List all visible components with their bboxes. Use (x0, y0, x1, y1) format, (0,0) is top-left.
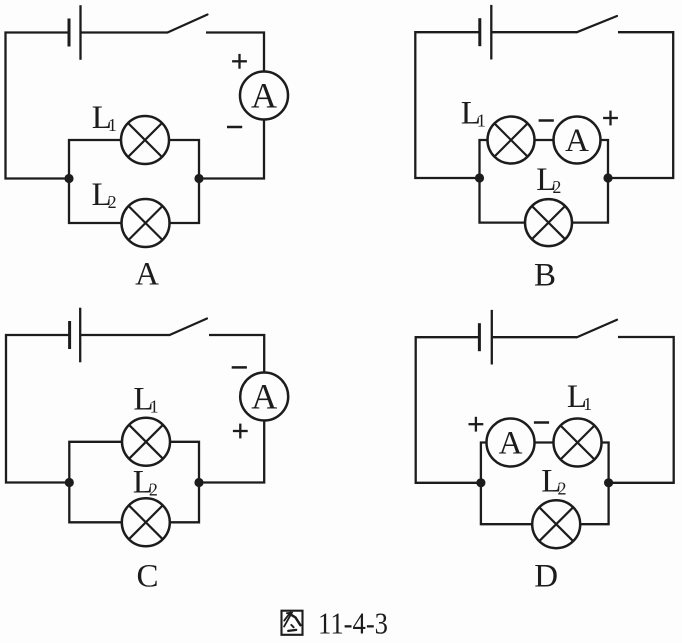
circuit B: wire from battery negative plate, down left side, to left node (415, 32, 480, 178)
circuit A: left junction node (64, 174, 73, 183)
figure caption: Chinese character TU (figure) drawn as strokes (282, 611, 303, 635)
circuit C: ammeter A (240, 373, 288, 421)
circuit D: wire from switch down right side to right node (609, 337, 674, 483)
svg-text:A: A (135, 257, 159, 293)
circuit A: bottom branch wire (left node down to lamp L2) (69, 179, 122, 224)
circuit D: top branch wire (left node up to ammeter) (481, 443, 487, 483)
circuit A: lamp L2 (122, 199, 170, 247)
svg-text:A: A (565, 123, 589, 159)
circuit C: switch (open blade) (170, 319, 207, 336)
circuit D: bottom branch wire (lamp L2 to right node) (580, 483, 608, 524)
svg-text:D: D (534, 559, 558, 595)
circuit D: right junction node (604, 478, 613, 487)
circuit D: lamp L1 (554, 419, 602, 467)
svg-text:B: B (534, 258, 556, 294)
circuit C: top branch wire (lamp L1 to right node) (170, 442, 199, 483)
circuit C: top branch wire (left node up to lamp L1) (69, 442, 122, 483)
circuit B: lamp L1 (488, 117, 535, 164)
circuit C: wire from ammeter bottom to right node (199, 421, 264, 483)
circuit D: switch (open blade) (577, 320, 617, 337)
circuit B: switch (open blade) (577, 16, 617, 32)
circuit B: wire between lamp L1 and ammeter (535, 139, 554, 141)
svg-text:A: A (251, 75, 277, 115)
circuit A: lamp L1 (121, 116, 169, 164)
circuit C: wire from battery positive plate to switch (80, 334, 169, 336)
circuit A: wire from battery positive plate to switch (81, 31, 168, 33)
circuit A: battery (69, 5, 81, 60)
circuit D: left junction node (476, 478, 485, 487)
circuit A: right junction node (194, 174, 203, 183)
circuit A: ammeter A (240, 72, 288, 120)
circuit A: top branch wire (lamp L1 to right node) (169, 140, 199, 179)
circuit A: wire from switch to ammeter top (206, 33, 264, 72)
circuit A: wire from battery negative plate, down left side, to left node (6, 33, 70, 179)
circuit B: bottom branch wire (lamp L2 to right node) (572, 178, 608, 223)
circuit B: lamp L2 (525, 199, 572, 246)
svg-text:11-4-3: 11-4-3 (318, 606, 388, 639)
circuit A: wire from ammeter bottom to right node (199, 120, 264, 179)
svg-text:C: C (136, 559, 158, 595)
circuit D: wire from battery positive plate to switch (492, 336, 577, 338)
circuit D: bottom branch wire (left node down to lamp L2) (481, 483, 532, 524)
circuit A: + polarity mark (232, 54, 247, 69)
circuit D: - polarity mark (534, 421, 549, 424)
circuit D: wire between ammeter and lamp L1 (535, 441, 554, 443)
circuit B: - polarity mark (539, 119, 554, 122)
circuit B: right junction node (603, 173, 612, 182)
circuit C: right junction node (194, 478, 203, 487)
circuit D: lamp L2 (532, 500, 580, 548)
circuit C: - polarity mark (232, 366, 247, 369)
circuit B: wire from switch down right side to right node (608, 32, 673, 178)
circuit A: bottom branch wire (lamp L2 to right node) (170, 179, 200, 224)
circuit A: top branch wire (left node up to lamp L1) (69, 140, 121, 179)
circuit B: ammeter A (554, 117, 601, 164)
circuit D: battery (479, 310, 491, 365)
circuit C: left junction node (65, 478, 74, 487)
circuit B: bottom branch wire (left node down to lamp L2) (480, 178, 526, 223)
svg-text:A: A (251, 376, 277, 416)
svg-text:A: A (499, 425, 523, 461)
circuit A: switch (open blade) (168, 15, 208, 33)
circuit D: wire from battery negative plate, down left side, to left node (416, 337, 481, 483)
circuit C: battery (70, 308, 81, 363)
circuit C: lamp L1 (122, 418, 170, 466)
circuit C: wire from battery negative plate, down left side, to left node (6, 335, 70, 483)
circuit B: top branch wire (left node up to lamp L1) (480, 140, 489, 178)
circuit C: bottom branch wire (lamp L2 to right node) (170, 483, 199, 523)
circuit C: wire from switch to ammeter top (209, 335, 264, 373)
circuit B: left junction node (475, 173, 484, 182)
circuit B: top branch wire (ammeter to right node) (601, 140, 609, 178)
circuit D: ammeter A (487, 419, 535, 467)
circuit C: + polarity mark (233, 424, 248, 439)
circuit C: lamp L2 (122, 498, 170, 546)
circuit D: top branch wire (lamp L1 to right node) (602, 443, 609, 483)
circuit D: + polarity mark (469, 417, 484, 432)
circuit B: wire from battery positive plate to switch (491, 31, 577, 33)
circuit C: bottom branch wire (left node down to lamp L2) (69, 483, 122, 523)
circuit B: battery (480, 5, 492, 60)
circuit A: - polarity mark (227, 126, 242, 129)
circuit B: + polarity mark (603, 111, 618, 126)
